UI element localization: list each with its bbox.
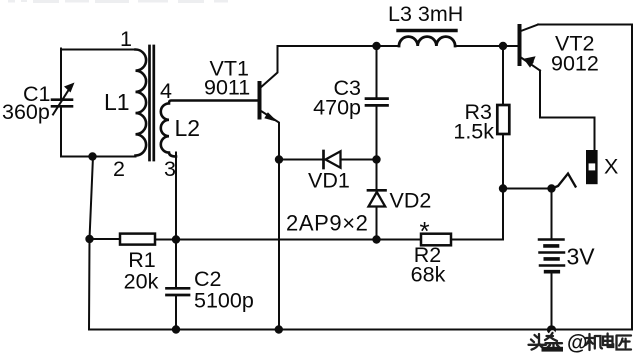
- wire: node to battery column: [503, 188, 552, 190]
- wire: emitter column down to ground rail: [278, 160, 280, 330]
- node: R1 left: [85, 235, 93, 243]
- capacitor C1 (variable, 360p): [52, 100, 72, 107]
- wire: top rail right segment: [455, 45, 503, 47]
- wire: L2 pin3 down through C2 row: [175, 153, 177, 240]
- node: VT1 emitter / VD1: [275, 155, 283, 163]
- svg-text:360p: 360p: [2, 100, 50, 124]
- earphone jack X: [586, 150, 598, 184]
- diode VD2: [376, 160, 378, 192]
- svg-text:4: 4: [160, 79, 172, 103]
- svg-text:3V: 3V: [567, 244, 596, 270]
- svg-text:1.5k: 1.5k: [453, 120, 494, 144]
- svg-text:C2: C2: [194, 267, 221, 291]
- wire: left loop bottom: [61, 156, 136, 158]
- node: ground/battery: [547, 325, 556, 334]
- wire: left loop vertical upper: [60, 49, 62, 99]
- resistor R1 20k: [90, 238, 121, 240]
- capacitor C3 470p: [376, 46, 378, 97]
- svg-text:L3 3mH: L3 3mH: [388, 2, 463, 26]
- svg-text:9011: 9011: [204, 76, 250, 100]
- svg-text:*: *: [420, 216, 430, 246]
- resistor R3 1.5k: [502, 46, 504, 105]
- node: loop bottom / tap junction: [88, 152, 96, 160]
- node: R1 right / C2 top: [172, 235, 180, 243]
- wire: left loop vertical lower: [60, 108, 62, 157]
- wire: VT2 collector to right border and ground: [538, 25, 632, 330]
- svg-text:@: @: [567, 332, 587, 355]
- node: ground/C2: [172, 325, 180, 333]
- wire: VT2 emitter to jack X: [540, 71, 595, 151]
- svg-text:2: 2: [113, 157, 125, 181]
- node: VD1 / C3 / VD2: [372, 155, 380, 163]
- capacitor C2 5100p: [175, 240, 177, 288]
- node: R3 bottom / battery feed: [499, 184, 507, 192]
- svg-text:1: 1: [120, 27, 132, 51]
- node: ground/emitter column: [275, 325, 283, 333]
- wire: top rail left segment: [278, 45, 400, 47]
- L3 core bar: [398, 29, 456, 32]
- svg-text:VD1: VD1: [308, 169, 350, 193]
- transistor VT1 9011: [258, 83, 262, 118]
- svg-text:5100p: 5100p: [194, 289, 254, 313]
- wire: ground rail: [89, 329, 632, 331]
- inductor L1: [136, 50, 147, 156]
- svg-text:X: X: [604, 155, 618, 179]
- node: battery top junction: [547, 184, 555, 192]
- resistor R2 68k (with *): [421, 234, 451, 246]
- svg-text:R1: R1: [128, 248, 155, 272]
- node: top rail / R3 / VT2 base: [499, 42, 507, 50]
- svg-text:470p: 470p: [313, 96, 361, 120]
- faint cut-off text remnants top edge: [8, 0, 228, 3]
- svg-text:3: 3: [164, 157, 176, 181]
- node: VD2 anode on bias wire: [372, 235, 380, 243]
- svg-text:L2: L2: [175, 115, 201, 141]
- transistor VT2 9012: [518, 26, 522, 64]
- wire: VT2 base: [503, 45, 518, 47]
- inductor L2: [161, 101, 258, 157]
- svg-text:9012: 9012: [551, 52, 599, 76]
- svg-text:20k: 20k: [124, 270, 159, 294]
- inductor L3 3mH: [399, 37, 455, 46]
- diode VD1: [279, 159, 377, 161]
- svg-text:VD2: VD2: [390, 189, 432, 213]
- svg-text:2AP9×2: 2AP9×2: [286, 211, 369, 236]
- node: top rail / C3: [372, 42, 380, 50]
- battery 3V: [551, 189, 553, 239]
- wire: left loop top: [61, 49, 136, 51]
- svg-text:L1: L1: [104, 89, 130, 115]
- wire: tap down to R1 row and ground rail: [89, 157, 93, 330]
- jack spring contact: [553, 174, 576, 189]
- svg-text:68k: 68k: [411, 263, 446, 287]
- transformer core: [150, 46, 154, 160]
